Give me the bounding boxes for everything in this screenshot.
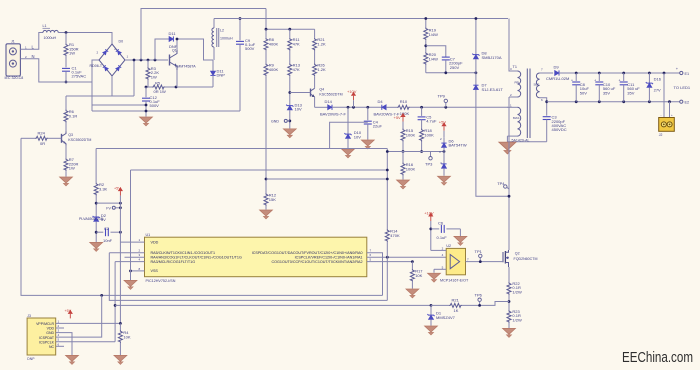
resistor R22 0.1R 1/2W <box>507 282 511 295</box>
svg-text:470K: 470K <box>390 233 400 238</box>
svg-text:+5V: +5V <box>394 115 402 120</box>
resistor R10 100K <box>397 105 410 109</box>
svg-text:C6: C6 <box>438 220 444 225</box>
svg-text:Q4: Q4 <box>319 88 324 92</box>
svg-text:PIC12HV752-I/SN: PIC12HV752-I/SN <box>146 279 176 283</box>
resistor R21 1K <box>431 304 449 306</box>
resistor R17 10K <box>411 262 413 269</box>
svg-text:BAT54TW: BAT54TW <box>449 143 467 148</box>
svg-text:D16: D16 <box>654 76 662 81</box>
BUS3 RA2 loop to R21 <box>114 262 116 342</box>
svg-text:L1: L1 <box>43 24 47 28</box>
svg-text:10K: 10K <box>123 335 130 340</box>
svg-text:N: N <box>32 54 35 59</box>
wire C1 bottom to N return <box>65 71 67 82</box>
capacitor C7 2200pF 250V <box>426 46 446 57</box>
svg-text:+: + <box>114 48 116 52</box>
resistor R26 1.2K <box>313 63 317 76</box>
ground below R23 <box>503 328 516 337</box>
svg-text:ICSPCLK/VREF/C12I0-/C1IN0-/AN1: ICSPCLK/VREF/C12I0-/C1IN0-/AN1/RA1 <box>295 256 363 260</box>
svg-text:+: + <box>571 79 573 83</box>
ground below C12 <box>140 117 153 126</box>
svg-text:+10V: +10V <box>424 211 434 216</box>
connector J2 output <box>663 73 665 118</box>
bias winding <box>507 106 517 108</box>
ground below D2 <box>90 242 103 251</box>
svg-text:SEC: SEC <box>534 83 540 87</box>
svg-text:FQD2N60CTM: FQD2N60CTM <box>514 257 538 261</box>
svg-text:+5V: +5V <box>114 186 121 190</box>
svg-text:500V: 500V <box>150 103 160 108</box>
R14 column to BUS2 <box>386 257 388 300</box>
svg-text:VSS: VSS <box>151 269 159 273</box>
U1 RA5 pin wire <box>109 252 144 254</box>
U1 RA3 pin wire <box>115 261 144 263</box>
svg-text:RA3/MCLR/COG1FLT/T1G: RA3/MCLR/COG1FLT/T1G <box>151 260 196 264</box>
svg-text:IEC 320-C8: IEC 320-C8 <box>5 76 24 80</box>
resistor R20 1/4W <box>424 52 428 65</box>
svg-text:PLVA650A,215: PLVA650A,215 <box>79 217 103 221</box>
Q4 emitter drop to bias row <box>314 97 316 107</box>
svg-text:4.7uF: 4.7uF <box>426 119 437 124</box>
ground below D1 <box>425 326 438 335</box>
svg-text:+10V: +10V <box>347 89 357 94</box>
ground below R17 <box>406 289 419 298</box>
transistor Q1 FMMT458TA <box>170 49 197 71</box>
svg-text:1W: 1W <box>151 74 157 79</box>
svg-text:D9: D9 <box>554 65 560 70</box>
capacitor C12 0.1uF 500V <box>145 87 147 97</box>
resistor R12 15K <box>264 193 268 206</box>
connector J1 IEC 320-C8 <box>5 40 35 80</box>
branch up to C4 top rail <box>330 122 368 148</box>
capacitor C5 4.7uF <box>421 107 423 116</box>
clamp rail y72.8 <box>426 72 476 74</box>
wire R1 to C1 <box>65 56 67 67</box>
svg-text:J1: J1 <box>11 40 15 44</box>
svg-text:ICSPDAT/COG1OUT/DACOUT/FVROUT/: ICSPDAT/COG1OUT/DACOUT/FVROUT/C12I0+/C1I… <box>252 251 363 255</box>
svg-text:KSC5502DTM: KSC5502DTM <box>319 92 342 96</box>
BUS1 RA0 loop <box>21 138 383 295</box>
test point TP3 <box>430 152 432 157</box>
svg-text:MCP1416T-E/OT: MCP1416T-E/OT <box>440 279 469 283</box>
svg-text:GND: GND <box>271 119 279 123</box>
transformer T1 <box>507 19 548 143</box>
bus A riser to top rail <box>141 9 266 61</box>
horizontal run y96 to R6 <box>66 95 134 97</box>
D1 top loop wires <box>155 39 169 60</box>
svg-text:1/2W: 1/2W <box>512 289 522 294</box>
+10V power arrow for U2 <box>428 212 433 221</box>
+5V power arrow over D6 <box>441 122 446 131</box>
Q1 emitter drop <box>176 70 178 87</box>
svg-text:+: + <box>594 79 596 83</box>
inductor L1 1000uH <box>43 24 59 40</box>
bias return gnd <box>507 136 546 142</box>
ground below C4 <box>361 140 374 149</box>
wire J1 N return <box>20 59 92 82</box>
transistor Q4 KSC5502DTM <box>311 88 343 97</box>
Q4 collector stub <box>314 87 316 90</box>
svg-text:3.3K: 3.3K <box>99 187 108 192</box>
U1 VDD pin wire from FV column <box>120 241 144 243</box>
svg-text:Q2: Q2 <box>515 251 520 255</box>
U1 RA4 pin wire <box>125 256 145 258</box>
resistor R13 47K <box>288 63 292 76</box>
svg-text:0.1uF: 0.1uF <box>437 235 448 240</box>
Q2 source to R22 <box>508 267 510 282</box>
ground below D13 <box>283 129 296 138</box>
zener D16 27V <box>648 73 650 83</box>
MCU U1 PIC12HV752 block <box>145 233 367 283</box>
svg-text:VPP/MCLR: VPP/MCLR <box>36 322 54 326</box>
svg-text:R10: R10 <box>400 99 408 104</box>
transistor Q3 KSC5502DTM <box>62 132 92 146</box>
svg-text:5V: 5V <box>101 217 106 222</box>
svg-text:D14: D14 <box>325 99 333 104</box>
J3 pin1 wire VPP with +5V and R4 <box>56 322 121 324</box>
svg-text:+5V: +5V <box>439 120 447 125</box>
MOSFET Q2 FQD2N60CTM <box>503 250 537 267</box>
svg-text:0R: 0R <box>40 141 45 146</box>
svg-text:275VAC: 275VAC <box>72 73 87 78</box>
capacitor C2 10nF <box>96 231 103 233</box>
output - rail <box>547 101 680 103</box>
svg-text:SMBJ170A: SMBJ170A <box>482 55 502 60</box>
svg-text:CMR1U-02M: CMR1U-02M <box>546 76 569 81</box>
svg-text:TP1: TP1 <box>475 249 483 254</box>
wire N riser to bridge left <box>92 60 99 82</box>
svg-text:27V: 27V <box>654 87 661 92</box>
TVS D8 SMBJ170A <box>475 19 477 55</box>
svg-text:TP9: TP9 <box>438 94 446 99</box>
svg-text:1K: 1K <box>454 308 459 313</box>
svg-text:S1J-E3-61T: S1J-E3-61T <box>482 87 504 92</box>
svg-text:450VDC: 450VDC <box>552 127 567 132</box>
svg-text:RA4/AN3/COG1FLT/CLKOUT/C1IN1-/: RA4/AN3/COG1FLT/CLKOUT/C1IN1-/COG1OUT1/T… <box>151 256 242 260</box>
test point TP9 <box>444 99 447 102</box>
svg-text:D4: D4 <box>378 99 384 104</box>
test point TP4 <box>504 185 507 188</box>
svg-text:1/2W: 1/2W <box>512 317 522 322</box>
svg-text:250V: 250V <box>450 65 460 70</box>
wire bridge-left gnd runs <box>91 82 93 111</box>
+10V power arrow <box>351 92 356 101</box>
svg-text:E1: E1 <box>685 72 690 76</box>
long rail A y148.5 from R2 to x387 <box>96 148 387 150</box>
ground right of C6 <box>454 236 467 245</box>
diode D4 BAV20WS-7-F <box>382 105 386 110</box>
svg-text:TP3: TP3 <box>425 162 433 167</box>
U1 RA1 pin wire <box>367 256 446 258</box>
inductor L2 1000uH <box>212 19 233 61</box>
resistor R7 220R 1W <box>65 146 67 158</box>
capacitor C8 10uF 50V <box>575 73 577 81</box>
rail C y179 to R14 column <box>266 178 387 180</box>
svg-text:1000uH: 1000uH <box>44 36 57 40</box>
svg-text:GND: GND <box>46 331 54 335</box>
svg-text:R21: R21 <box>452 297 460 302</box>
svg-text:1W: 1W <box>69 51 75 56</box>
resistor R21 1.2K <box>314 29 316 38</box>
svg-text:47K: 47K <box>293 67 300 72</box>
svg-text:Q1: Q1 <box>172 49 177 53</box>
resistor R9 400K <box>264 63 268 76</box>
svg-text:PRI: PRI <box>515 81 520 85</box>
ground below R7 <box>60 177 73 186</box>
main HV bus y60 <box>125 59 168 61</box>
gate driver U2 MCP1416T-E/OT <box>440 244 469 282</box>
zener D2 PLVA650A,215 <box>93 216 100 221</box>
svg-text:ICSPDAT: ICSPDAT <box>39 336 55 340</box>
core <box>526 69 528 139</box>
svg-text:J3: J3 <box>27 314 31 318</box>
capacitor C9 0.1uF 500V <box>239 19 241 41</box>
svg-text:COG1OUT0/CCP/C1OUT/C1OUT/T0CKI: COG1OUT0/CCP/C1OUT/C1OUT/T0CKI/INT/AN2/R… <box>272 260 363 264</box>
gnd rail B y170 <box>131 169 388 171</box>
svg-text:DNP: DNP <box>217 73 226 78</box>
svg-text:10K: 10K <box>415 273 422 278</box>
svg-text:RA5/CLKIN/T1CKI/C1IN1-/COG1OUT: RA5/CLKIN/T1CKI/C1IN1-/COG1OUT1 <box>151 251 216 255</box>
wire L1 to bridge top <box>58 33 112 45</box>
svg-text:1000uH: 1000uH <box>220 37 233 41</box>
svg-text:ICSPCLK: ICSPCLK <box>39 340 55 344</box>
R14 feed column x387 <box>386 149 388 230</box>
svg-text:15K: 15K <box>269 197 276 202</box>
primary winding <box>509 19 518 72</box>
svg-text:22uF: 22uF <box>373 124 383 129</box>
resistor R14 470K <box>385 229 389 242</box>
+5V power arrow over R15 <box>400 113 405 122</box>
svg-text:BAV20WS-7-F: BAV20WS-7-F <box>320 112 346 117</box>
diode D11 (top, DNP) <box>169 36 173 41</box>
svg-text:FV: FV <box>106 206 111 210</box>
ground below R16 <box>397 180 410 189</box>
resistor R1 150R 1W <box>65 33 67 44</box>
resistor R15 100K <box>401 129 405 142</box>
connector J3 ICSP <box>27 314 56 361</box>
bridge rectifier D0 RD06-T <box>90 40 129 77</box>
svg-text:35V: 35V <box>627 90 634 95</box>
Q4 base row <box>290 92 311 94</box>
svg-text:1/4W: 1/4W <box>429 56 439 61</box>
R5 row y87 <box>146 86 152 88</box>
U2 output to Q2 gate <box>466 261 503 263</box>
svg-text:47K: 47K <box>293 42 300 47</box>
svg-text:100K: 100K <box>424 133 434 138</box>
svg-text:EEChina.com: EEChina.com <box>622 350 693 366</box>
svg-text:R5: R5 <box>155 81 161 86</box>
svg-text:1.2K: 1.2K <box>317 67 326 72</box>
diode D11 vertical (DNP) <box>212 60 214 71</box>
capacitor C10 560uF 35V <box>598 73 600 81</box>
svg-text:10nF: 10nF <box>103 238 113 243</box>
svg-text:C2: C2 <box>104 226 110 231</box>
ground below R12 <box>260 210 273 219</box>
svg-text:1/4W: 1/4W <box>429 32 439 37</box>
ground below D10 <box>342 149 355 158</box>
svg-text:1.2K: 1.2K <box>317 42 326 47</box>
svg-text:E2: E2 <box>685 101 690 105</box>
resistor R5 0R 1W <box>152 85 165 89</box>
svg-text:100K: 100K <box>406 167 416 172</box>
svg-text:D11: D11 <box>169 31 177 36</box>
capacitor C6 0.1uF <box>431 228 439 230</box>
test point TP1 <box>479 254 482 257</box>
svg-text:400K: 400K <box>269 42 279 47</box>
svg-text:TP4: TP4 <box>497 181 505 186</box>
svg-text:100K: 100K <box>406 133 416 138</box>
svg-text:U1: U1 <box>146 233 151 237</box>
diode D14 BAV20WS-7-F <box>328 105 332 110</box>
svg-text:400K: 400K <box>269 67 279 72</box>
resistor R4 10K <box>119 323 121 330</box>
vertical from bus to y96 <box>133 60 135 96</box>
U2 pin5 gnd wire <box>434 268 446 270</box>
svg-text:+: + <box>671 113 673 117</box>
svg-text:MMSZ4V7: MMSZ4V7 <box>436 315 456 320</box>
U1 VSS pin wire + ground <box>131 270 145 272</box>
svg-text:+5V: +5V <box>65 309 72 313</box>
svg-text:Q3: Q3 <box>68 133 73 137</box>
capacitor C11 560uF 35V <box>623 73 625 81</box>
node: R1 top junction <box>65 31 68 34</box>
J3 pin4 wire ICSPDAT <box>56 295 102 337</box>
svg-text:TO LED1: TO LED1 <box>674 85 691 90</box>
zener D13 10V <box>286 105 293 110</box>
svg-text:VDD: VDD <box>151 241 159 245</box>
svg-text:+: + <box>619 79 621 83</box>
J3 pin2 wire VDD <box>56 327 64 329</box>
svg-text:U2: U2 <box>446 244 451 248</box>
resistor R23 0.1R 1/2W <box>507 310 511 323</box>
BUS2 RA1 sense loop <box>109 253 387 301</box>
ground below D6 <box>438 176 451 185</box>
Q1 collector riser <box>176 39 178 50</box>
svg-text:L2: L2 <box>220 29 224 33</box>
svg-text:DNP: DNP <box>27 357 35 361</box>
diode D7 S1J-E3-61T <box>473 85 478 89</box>
resistor R24 0R <box>21 137 35 139</box>
J3 pin6 stub NC <box>56 345 64 347</box>
top rail hv bus y19 <box>214 18 508 20</box>
test point TP6 <box>478 298 481 301</box>
svg-text:BIAS: BIAS <box>513 116 520 120</box>
FV column down to VDD/J3 <box>119 196 121 324</box>
resistor R3 2.2K 1W <box>147 60 149 67</box>
resistor R19 1/4W <box>425 19 427 28</box>
secondary top rail to D9 <box>548 72 553 74</box>
svg-text:100K: 100K <box>400 111 410 116</box>
svg-text:0.1R: 0.1R <box>69 114 78 119</box>
FV node cross wires <box>96 202 120 204</box>
output - terminal E2 <box>680 100 683 103</box>
+5V power arrow at FV <box>118 187 123 196</box>
J3 pin3 wire GND <box>56 333 72 355</box>
svg-text:-: - <box>661 113 662 117</box>
wire J1 L to L1 <box>20 33 43 50</box>
feedback row y151.5 <box>403 151 444 153</box>
gnd rail drop at x131 <box>130 170 132 280</box>
svg-text:500V: 500V <box>245 46 255 51</box>
resistor R2 3.3K <box>95 149 97 183</box>
Y-cap C3 2200pF <box>546 102 548 116</box>
svg-text:10V: 10V <box>295 107 302 112</box>
riser busA to divider rail <box>265 9 267 30</box>
dual diode D6 BAT54TW <box>443 138 445 143</box>
U1 RA0 pin wire <box>367 253 383 296</box>
wire bridge bottom to gnd run <box>111 76 113 96</box>
resistor R8 400K <box>265 29 267 38</box>
capacitor C4 22uF <box>367 107 369 120</box>
divider feed rail y29 <box>266 28 315 30</box>
diode D9 CMR1U-02M <box>555 70 559 75</box>
svg-text:0R 1W: 0R 1W <box>154 89 166 94</box>
svg-text:R24: R24 <box>38 131 46 136</box>
svg-text:D0: D0 <box>119 40 124 44</box>
secondary winding <box>540 72 548 74</box>
svg-text:KSC5502DTM: KSC5502DTM <box>68 138 91 142</box>
ground below R4 <box>114 355 127 364</box>
svg-text:VDD: VDD <box>47 327 55 331</box>
svg-text:RD06-T: RD06-T <box>90 64 103 68</box>
U1 RA2 pin wire <box>367 261 413 263</box>
svg-text:NC: NC <box>49 345 55 349</box>
svg-text:35V: 35V <box>603 90 610 95</box>
U2 pin2 supply wire <box>431 249 446 251</box>
bias supply row y107.3 <box>315 106 328 108</box>
zener D1 MMSZ4V7 <box>430 305 432 315</box>
svg-text:10V: 10V <box>354 134 361 139</box>
resistor R11 47K <box>289 29 291 38</box>
capacitor C1 0.1uF 275VAC <box>62 68 70 71</box>
Q3 cluster: resistor R6 0.1R <box>65 96 67 110</box>
svg-text:TP6: TP6 <box>475 292 483 297</box>
svg-text:1W: 1W <box>69 166 75 171</box>
Q2 drain column from primary <box>508 97 510 250</box>
zener D10 10V <box>347 107 349 134</box>
resistor R16 100K <box>402 152 404 163</box>
svg-text:J2: J2 <box>659 133 663 137</box>
link to R15/R16 node <box>387 151 403 153</box>
svg-text:FMMT458TA: FMMT458TA <box>175 64 196 68</box>
resistor R18 100K <box>420 129 424 142</box>
J3 pin5 wire ICSPCLK <box>56 341 115 343</box>
svg-text:50V: 50V <box>580 90 587 95</box>
svg-text:T1: T1 <box>513 65 517 69</box>
